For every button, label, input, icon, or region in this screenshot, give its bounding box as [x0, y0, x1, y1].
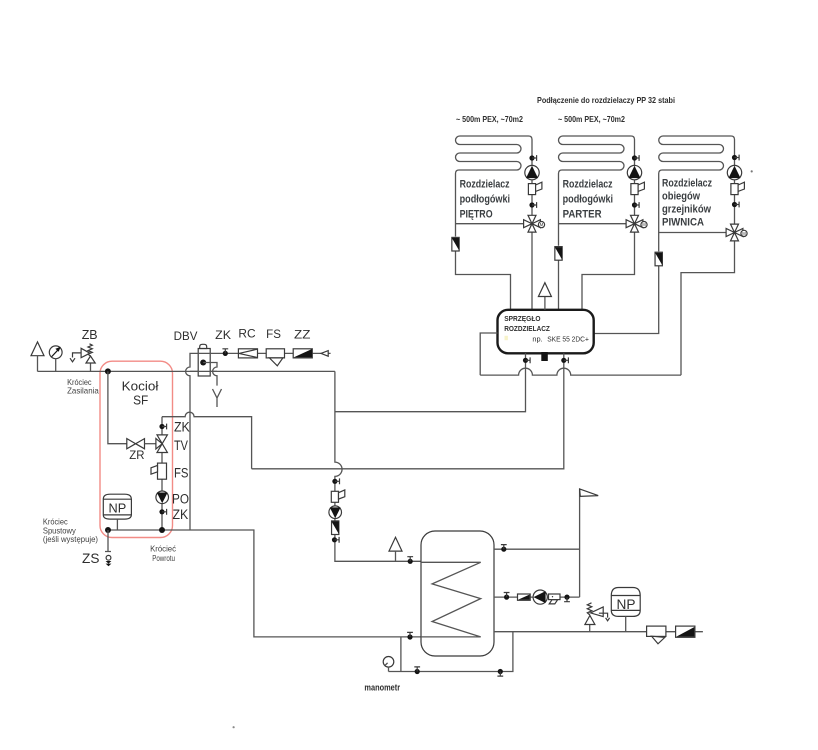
- separator bottom left port pipe: [335, 353, 526, 411]
- svg-text:SPRZĘGŁO: SPRZĘGŁO: [504, 314, 540, 323]
- svg-text:~ 500m PEX, ~70m2: ~ 500m PEX, ~70m2: [456, 114, 523, 124]
- svg-text:ZK: ZK: [215, 330, 231, 342]
- vent riser: [579, 489, 581, 597]
- red boiler outline: [100, 361, 173, 537]
- svg-text:DBV: DBV: [174, 331, 198, 343]
- svg-text:NP: NP: [109, 501, 127, 516]
- supply group balancing valve: [332, 521, 339, 535]
- svg-text:(jeśli występuje): (jeśli występuje): [43, 534, 98, 544]
- air vent top left: [31, 342, 44, 356]
- three-way valve TV: [156, 435, 168, 453]
- ZB spring: [88, 344, 92, 356]
- circuit 1 pump: [525, 165, 539, 179]
- tank middle port pipe: [494, 596, 580, 598]
- shut-off valve ZZ: [293, 349, 312, 358]
- svg-text:podłogówki: podłogówki: [460, 194, 511, 206]
- circuit 3 left riser to separator right port: [594, 266, 659, 334]
- floor heating coil circuit 3: [659, 136, 735, 251]
- filter FS boiler: [151, 463, 167, 479]
- svg-text:Rozdzielacz: Rozdzielacz: [662, 177, 712, 189]
- pump fitting: [549, 594, 561, 604]
- NP stub: [116, 519, 118, 530]
- tank top right valve: [501, 545, 507, 552]
- fill line through DBV: [199, 352, 331, 354]
- safety valve stub: [589, 625, 591, 632]
- svg-text:podłogówki: podłogówki: [563, 194, 614, 206]
- circuit 2 pump column pipe: [582, 152, 635, 310]
- circuit 2 valve ZK: [632, 155, 639, 161]
- NP right stub: [625, 616, 627, 631]
- stray dot: [751, 170, 753, 172]
- circuit 2 pump: [627, 165, 641, 179]
- supply group pump: [329, 506, 342, 519]
- separator bottom right port valve: [561, 357, 568, 363]
- return node Króciec Spustowy: [105, 527, 111, 533]
- svg-text:PIĘTRO: PIĘTRO: [460, 208, 493, 220]
- svg-text:FS: FS: [266, 329, 281, 341]
- svg-text:np.: np.: [532, 334, 542, 343]
- circuit 1 balancing valve: [452, 237, 459, 251]
- circuit 2 left riser to separator: [558, 260, 560, 310]
- supply group valve ZK: [332, 478, 339, 484]
- boiler return line: [108, 530, 421, 637]
- boiler internal supply drop: [108, 371, 127, 443]
- circuit 3 balancing valve: [655, 252, 662, 266]
- svg-text:ZR: ZR: [129, 448, 145, 462]
- valve ZK below pump: [159, 509, 166, 515]
- svg-text:manometr: manometr: [364, 683, 400, 694]
- DBV right drain pipe: [203, 363, 217, 386]
- return line from TV top: [162, 412, 252, 469]
- hydraulic separator box: [498, 310, 594, 354]
- svg-text:~ 500m PEX, ~70m2: ~ 500m PEX, ~70m2: [558, 114, 625, 124]
- svg-text:obiegów: obiegów: [662, 191, 701, 203]
- circulation pump: [533, 590, 547, 604]
- floor heating coil circuit 1: [456, 136, 533, 237]
- valve ZK above TV: [159, 424, 166, 430]
- gauge needle: [52, 350, 59, 357]
- thermometer gauge: [49, 346, 62, 359]
- circuit 3 thermostatic valve: [731, 182, 745, 194]
- boiler supply header pipe: [38, 370, 335, 372]
- svg-text:ROZDZIELACZ: ROZDZIELACZ: [504, 324, 550, 333]
- separator bottom left port valve: [523, 357, 530, 363]
- svg-text:ZK: ZK: [173, 507, 189, 522]
- circuit 3 valve ZK: [732, 155, 739, 161]
- svg-text:ZS: ZS: [82, 550, 99, 566]
- supply group valve ZK lower: [332, 537, 339, 543]
- circuit 2 mixing valve with motor: [626, 215, 647, 232]
- circuit 2 supply pipe into mixer: [559, 223, 627, 225]
- supply group thermostatic valve: [331, 490, 345, 502]
- separator sensor pocket: [541, 352, 548, 361]
- circuit 3 valve ZK lower: [732, 202, 739, 208]
- gauge stub: [55, 359, 57, 372]
- valve ZR: [127, 439, 145, 449]
- svg-text:Podłączenie do rozdzielaczy PP: Podłączenie do rozdzielaczy PP 32 stabi: [537, 95, 675, 105]
- circuit 3 pump: [727, 165, 741, 179]
- supply node Króciec Zasilania: [105, 368, 111, 374]
- drain ZS pipe: [105, 530, 111, 552]
- svg-text:Kocioł: Kocioł: [122, 379, 159, 394]
- expansion vessel NP: [103, 494, 131, 519]
- filter FS top: [266, 349, 284, 366]
- floor heating coil circuit 2: [559, 136, 635, 246]
- svg-text:PIWNICA: PIWNICA: [662, 216, 704, 228]
- circuit 2 balancing valve: [555, 247, 562, 261]
- svg-text:NP: NP: [617, 597, 636, 612]
- separator left port pipe from mixer 3: [480, 333, 681, 375]
- tank bottom right line: [494, 631, 703, 633]
- circuit 1 mixing valve with motor: [524, 215, 545, 232]
- air vent stub: [37, 356, 39, 372]
- circuit 3 pump column pipe: [681, 152, 735, 375]
- middle port valve: [504, 593, 510, 600]
- separator air vent stub: [544, 297, 546, 310]
- svg-text:RC: RC: [238, 328, 255, 340]
- fill valve ZK: [222, 349, 228, 356]
- bottom loop valve right: [497, 669, 503, 676]
- separator bottom right port pipe: [252, 353, 564, 469]
- tank lower inlet valve: [407, 632, 413, 639]
- svg-text:Zasilania: Zasilania: [67, 386, 99, 396]
- filter bottom right: [647, 626, 666, 644]
- svg-text:ZZ: ZZ: [294, 329, 310, 341]
- ZB drain: [70, 353, 81, 362]
- svg-text:ZB: ZB: [82, 328, 98, 342]
- separator air vent: [538, 283, 551, 297]
- circuit 1 thermostatic valve: [528, 182, 542, 194]
- shut-off valve bottom right: [676, 626, 695, 637]
- circuit 3 mixing valve with motor: [726, 224, 747, 241]
- circuit 1 valve ZK lower: [529, 202, 536, 208]
- vent pennant: [580, 489, 599, 497]
- tank top right port pipe: [494, 548, 580, 550]
- air vent before tank: [389, 537, 402, 551]
- pipe ZR to TV: [145, 443, 156, 445]
- reducer RC: [238, 349, 257, 358]
- safety valve spring: [587, 603, 592, 615]
- yellow mark: [505, 336, 508, 340]
- DBV right port dot: [200, 360, 206, 366]
- fill line end arrow: [321, 351, 328, 357]
- svg-text:ZK: ZK: [174, 419, 190, 434]
- svg-text:SF: SF: [133, 392, 148, 407]
- svg-text:SKE 55 2DC+: SKE 55 2DC+: [547, 334, 589, 343]
- supply drop pipe with pump group: [335, 371, 421, 561]
- manometer gauge: [383, 657, 394, 672]
- manometer branch: [389, 632, 513, 672]
- buffer tank: [421, 531, 494, 656]
- middle port valve right: [564, 595, 570, 602]
- svg-text:PARTER: PARTER: [563, 208, 602, 220]
- circuit 1 pump column pipe: [531, 152, 533, 310]
- DBV body: [198, 349, 210, 377]
- circuit 2 valve ZK lower: [632, 202, 639, 208]
- circuit 1 supply pipe into mixer: [456, 223, 524, 225]
- DBV cap: [200, 344, 207, 348]
- air vent stub: [395, 551, 397, 561]
- safety valve right: [585, 607, 603, 625]
- svg-text:Rozdzielacz: Rozdzielacz: [563, 179, 613, 191]
- safety valve ZB stub: [90, 363, 92, 371]
- drain ZS valve: [106, 555, 112, 566]
- supply line across DBV: [190, 370, 217, 372]
- svg-text:FS: FS: [174, 465, 189, 480]
- circuit 3 supply pipe into mixer: [659, 232, 726, 234]
- circuit 2 thermostatic valve: [631, 182, 645, 194]
- stray dot bottom: [233, 726, 235, 728]
- svg-text:TV: TV: [174, 438, 188, 453]
- middle port balancing valve: [518, 594, 531, 600]
- svg-text:PO: PO: [172, 492, 189, 507]
- svg-text:Rozdzielacz: Rozdzielacz: [460, 179, 510, 191]
- boiler column pipe: [161, 417, 163, 530]
- tank heat exchanger coil: [421, 562, 481, 637]
- circuit 1 valve ZK: [529, 155, 536, 161]
- pump PO: [156, 491, 169, 504]
- safety valve ZB: [81, 348, 95, 363]
- svg-text:Powrotu: Powrotu: [152, 553, 175, 563]
- expansion vessel NP right: [611, 588, 640, 617]
- circuit 1 left riser to separator: [456, 251, 511, 310]
- junction tank inlet valve: [407, 557, 413, 564]
- svg-text:grzejników: grzejników: [662, 204, 712, 216]
- safety valve drain: [599, 613, 610, 621]
- drain funnel Y: [213, 389, 222, 407]
- bottom loop valve left: [414, 667, 420, 674]
- return node Krócieć Powrotu: [159, 527, 165, 533]
- DBV left pipe down to return: [186, 353, 199, 530]
